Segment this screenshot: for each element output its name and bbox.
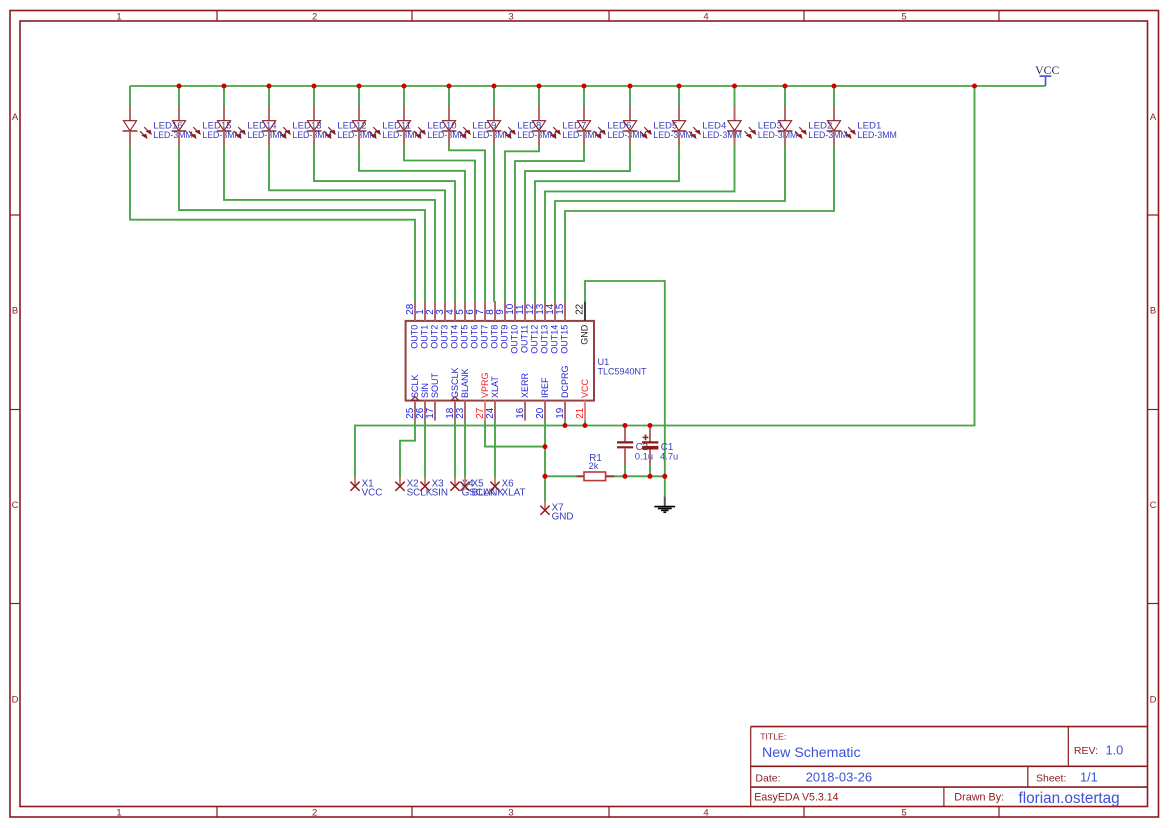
svg-text:Date:: Date: — [755, 772, 780, 784]
svg-text:Sheet:: Sheet: — [1036, 772, 1066, 784]
wire LED8 to OUT8 — [493, 145, 495, 302]
LED LED10 — [397, 105, 425, 145]
label LED2 — [808, 121, 848, 141]
svg-text:17: 17 — [425, 408, 436, 419]
wire LED2 to OUT14 — [555, 145, 785, 302]
svg-text:OUT15: OUT15 — [560, 325, 570, 354]
LED LED13 — [262, 105, 290, 145]
svg-text:GND: GND — [552, 512, 574, 523]
svg-text:5: 5 — [901, 807, 906, 818]
pin 4 OUT4 — [445, 301, 460, 349]
svg-text:A: A — [1150, 112, 1157, 123]
wire IREF down to X7 — [544, 421, 546, 502]
svg-text:15: 15 — [555, 303, 566, 314]
wire LED1 anode — [833, 86, 835, 106]
svg-text:21: 21 — [575, 407, 586, 418]
wire LED13 to OUT3 — [269, 145, 445, 302]
label LED8 — [517, 121, 557, 141]
label LED5 — [653, 121, 693, 141]
wire LED15 anode — [178, 86, 180, 106]
svg-text:VCC: VCC — [362, 488, 383, 499]
svg-text:florian.ostertag: florian.ostertag — [1019, 790, 1120, 807]
wire GSCLK to X4 — [454, 421, 456, 477]
svg-text:OUT14: OUT14 — [550, 325, 560, 354]
svg-text:OUT4: OUT4 — [450, 325, 460, 349]
svg-text:SIN: SIN — [420, 383, 430, 398]
svg-text:C: C — [1150, 500, 1157, 511]
svg-text:1: 1 — [116, 807, 121, 818]
svg-text:D: D — [12, 694, 19, 705]
wire VPRG to IREF — [485, 421, 546, 447]
pin 23 BLANK — [455, 368, 470, 420]
svg-text:New Schematic: New Schematic — [762, 745, 861, 761]
svg-text:VPRG: VPRG — [480, 372, 490, 398]
svg-text:GSCLK: GSCLK — [450, 367, 460, 398]
svg-text:OUT9: OUT9 — [500, 325, 510, 349]
svg-text:24: 24 — [485, 407, 496, 418]
wire VCC drop right — [974, 86, 976, 426]
pin 9 OUT9 — [495, 301, 510, 349]
wire LED12 to OUT4 — [314, 145, 455, 302]
wire LED2 anode — [784, 86, 786, 106]
pin 10 OUT10 — [505, 301, 520, 354]
wire BLANK to X5 — [464, 421, 466, 477]
LED LED5 — [623, 105, 651, 145]
label LED14 — [247, 121, 287, 141]
svg-text:OUT11: OUT11 — [520, 325, 530, 353]
LED LED2 — [778, 105, 806, 145]
svg-text:VCC: VCC — [1035, 63, 1059, 77]
svg-text:2: 2 — [312, 11, 317, 22]
wire LED7 to OUT9 — [505, 145, 539, 302]
svg-text:BLANK: BLANK — [472, 488, 505, 499]
wire LED10 to OUT6 — [404, 145, 475, 302]
svg-text:23: 23 — [455, 407, 466, 418]
pin 13 OUT13 — [535, 301, 550, 354]
svg-text:OUT13: OUT13 — [540, 325, 550, 354]
ground — [654, 496, 675, 512]
svg-text:OUT5: OUT5 — [460, 325, 470, 349]
connector X6 XLAT — [490, 477, 525, 499]
pin 26 SIN — [415, 383, 430, 421]
wire LED8 anode — [493, 86, 495, 106]
connector X7 GND — [540, 502, 573, 523]
svg-text:OUT8: OUT8 — [490, 325, 500, 349]
pin 7 OUT7 — [475, 301, 490, 349]
label LED10 — [427, 121, 467, 141]
connector X4 GSCLK — [450, 477, 495, 499]
svg-text:4: 4 — [703, 807, 708, 818]
pin 25 SCLK — [405, 374, 420, 420]
LED LED12 — [307, 105, 335, 145]
svg-text:SCLK: SCLK — [410, 374, 420, 398]
svg-text:3: 3 — [508, 807, 513, 818]
svg-text:GND: GND — [580, 324, 590, 345]
label U1 TLC5940NT — [598, 357, 648, 377]
LED LED11 — [352, 105, 380, 145]
svg-text:D: D — [1150, 694, 1157, 705]
pin 28 OUT0 — [405, 301, 420, 349]
wire LED9 anode — [448, 86, 450, 106]
svg-text:XLAT: XLAT — [490, 376, 500, 398]
wire LED14 to OUT2 — [224, 145, 435, 302]
pin 22 GND — [574, 301, 589, 344]
LED LED6 — [577, 105, 605, 145]
wire LED11 anode — [358, 86, 360, 106]
svg-text:B: B — [12, 306, 18, 317]
wire LED3 to OUT13 — [545, 145, 735, 302]
LED LED16 — [123, 105, 151, 145]
LED LED8 — [487, 105, 515, 145]
pin 14 OUT14 — [545, 301, 560, 354]
label LED16 — [153, 121, 193, 141]
pin 17 SOUT — [425, 372, 440, 420]
label LED6 — [607, 121, 647, 141]
LED LED7 — [532, 105, 560, 145]
wire LED16 anode — [129, 86, 131, 106]
svg-text:4.7u: 4.7u — [660, 450, 678, 461]
wire LED5 anode — [629, 86, 631, 106]
pin 18 GSCLK — [445, 367, 460, 420]
wire LED7 anode — [538, 86, 540, 106]
svg-text:TITLE:: TITLE: — [760, 731, 786, 741]
svg-text:1.0: 1.0 — [1106, 743, 1124, 758]
svg-text:OUT6: OUT6 — [470, 325, 480, 349]
svg-text:OUT10: OUT10 — [510, 325, 520, 354]
svg-text:5: 5 — [901, 11, 906, 22]
svg-text:OUT1: OUT1 — [420, 325, 430, 349]
pin 12 OUT12 — [525, 301, 540, 354]
svg-text:TLC5940NT: TLC5940NT — [598, 367, 648, 377]
svg-text:OUT7: OUT7 — [480, 325, 490, 349]
wire LED16 to OUT0 — [130, 145, 415, 302]
wire LED10 anode — [403, 86, 405, 106]
pin 24 XLAT — [485, 376, 500, 421]
svg-text:20: 20 — [535, 407, 546, 418]
resistor R1 2k — [577, 453, 615, 481]
svg-text:1/1: 1/1 — [1080, 770, 1098, 785]
wire R1 GND row — [545, 475, 665, 477]
label LED9 — [472, 121, 512, 141]
svg-text:16: 16 — [515, 407, 526, 418]
label LED4 — [702, 121, 742, 141]
pin 20 IREF — [535, 377, 550, 421]
svg-text:2k: 2k — [589, 460, 599, 471]
LED LED3 — [727, 105, 755, 145]
label LED12 — [337, 121, 377, 141]
wire X1 drop — [354, 425, 356, 478]
wire LED9 to OUT7 — [449, 145, 485, 302]
wire LED4 anode — [678, 86, 680, 106]
LED LED1 — [827, 105, 855, 145]
wire LED12 anode — [313, 86, 315, 106]
label LED7 — [562, 121, 602, 141]
LED LED15 — [172, 105, 200, 145]
svg-text:VCC: VCC — [580, 378, 590, 398]
VCC power flag — [1035, 63, 1059, 86]
pin 16 XERR — [515, 372, 530, 420]
wire VCC horizontal bus — [355, 425, 976, 427]
svg-text:OUT2: OUT2 — [430, 325, 440, 349]
svg-text:BLANK: BLANK — [460, 368, 470, 398]
svg-text:22: 22 — [574, 304, 585, 315]
wire LED4 to OUT12 — [535, 145, 679, 302]
label LED1 — [857, 121, 897, 141]
svg-text:B: B — [1150, 306, 1156, 317]
svg-text:C: C — [12, 500, 19, 511]
LED LED9 — [442, 105, 470, 145]
svg-text:19: 19 — [555, 407, 566, 418]
svg-text:IREF: IREF — [540, 377, 550, 398]
pin 8 OUT8 — [485, 301, 500, 349]
svg-text:1: 1 — [116, 11, 121, 22]
pin 5 OUT5 — [455, 301, 470, 349]
svg-text:2: 2 — [312, 807, 317, 818]
op-amp U1 body (TLC5940NT) — [406, 321, 594, 401]
pin 2 OUT2 — [425, 301, 440, 349]
svg-text:4: 4 — [703, 11, 708, 22]
connector X3 SIN — [420, 477, 448, 499]
svg-text:XERR: XERR — [520, 372, 530, 398]
pin 6 OUT6 — [465, 301, 480, 349]
wire LED5 to OUT11 — [525, 145, 630, 302]
connector X5 BLANK — [460, 477, 504, 499]
wire LED6 anode — [583, 86, 585, 106]
LED LED4 — [672, 105, 700, 145]
title block — [751, 727, 1148, 808]
pin 21 VCC — [575, 378, 590, 420]
label LED11 — [382, 121, 422, 141]
svg-text:OUT3: OUT3 — [440, 325, 450, 349]
svg-text:U1: U1 — [598, 357, 610, 367]
wire LED6 to OUT10 — [515, 145, 584, 302]
svg-text:3: 3 — [508, 11, 513, 22]
pin 27 VPRG — [475, 372, 490, 420]
svg-text:A: A — [12, 112, 19, 123]
junctions on VCC rail — [177, 84, 978, 89]
pin 19 DCPRG — [555, 365, 570, 420]
svg-text:Drawn By:: Drawn By: — [954, 791, 1004, 803]
wire LED1 to OUT15 — [565, 145, 834, 302]
svg-text:DCPRG: DCPRG — [560, 365, 570, 398]
label LED15 — [202, 121, 242, 141]
svg-text:OUT0: OUT0 — [410, 325, 420, 349]
junctions lower area — [543, 423, 668, 479]
wire LED13 anode — [268, 86, 270, 106]
pin 3 OUT3 — [435, 301, 450, 349]
connector X2 SCLK — [395, 477, 432, 499]
svg-text:SOUT: SOUT — [430, 372, 440, 398]
pin 15 OUT15 — [555, 301, 570, 354]
capacitor C1 4.7u — [642, 426, 678, 477]
wire SCLK to X2 — [400, 421, 415, 477]
svg-text:SIN: SIN — [432, 488, 448, 499]
wire XLAT to X6 — [494, 421, 496, 477]
wire LED3 anode — [734, 86, 736, 106]
label LED3 — [758, 121, 798, 141]
wire LED11 to OUT5 — [359, 145, 465, 302]
wire LED15 to OUT1 — [179, 145, 425, 302]
pin 11 OUT11 — [515, 301, 530, 353]
wire VCC top rail — [130, 85, 1046, 87]
svg-text:LED-3MM: LED-3MM — [857, 130, 897, 140]
wire SIN to X3 — [424, 421, 426, 477]
svg-text:2018-03-26: 2018-03-26 — [806, 770, 873, 785]
LED LED14 — [217, 105, 245, 145]
wire LED14 anode — [223, 86, 225, 106]
pin 1 OUT1 — [415, 301, 430, 349]
svg-text:REV:: REV: — [1074, 745, 1098, 757]
wire DCPRG to VCC bus — [564, 421, 566, 426]
label LED13 — [292, 121, 332, 141]
svg-text:EasyEDA V5.3.14: EasyEDA V5.3.14 — [754, 791, 838, 803]
svg-text:XLAT: XLAT — [502, 488, 526, 499]
svg-text:SCLK: SCLK — [407, 488, 433, 499]
wire VCC pin to bus — [584, 421, 586, 426]
connector X1 VCC — [350, 477, 382, 499]
capacitor C2 0.1u — [617, 426, 653, 477]
wire GND pin route — [585, 281, 665, 496]
svg-text:OUT12: OUT12 — [530, 325, 540, 354]
